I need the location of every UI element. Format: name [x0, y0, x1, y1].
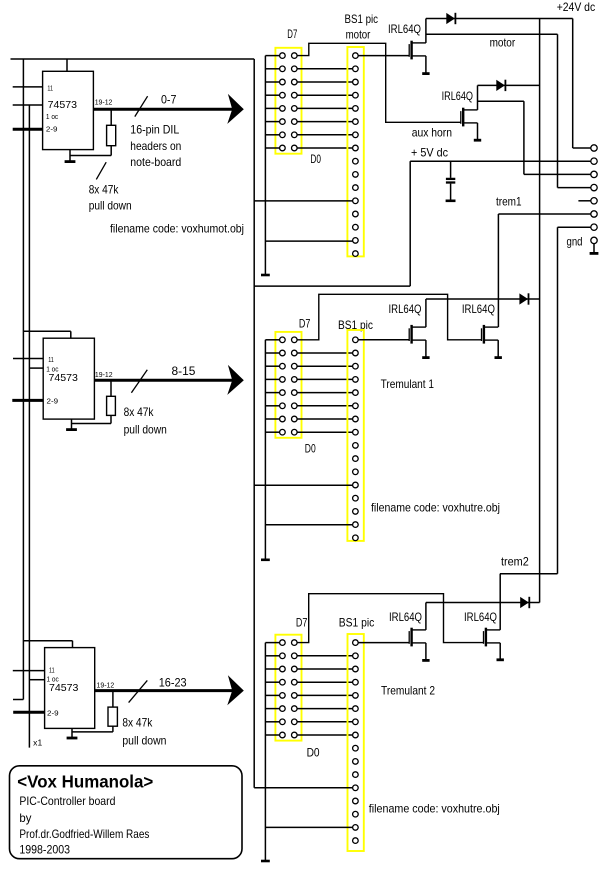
wire +5V rail to terminal: [410, 160, 591, 162]
svg-text:PIC-Controller board: PIC-Controller board: [19, 794, 115, 808]
wire U3 top pin drop: [72, 641, 74, 648]
svg-text:19-12: 19-12: [95, 372, 113, 379]
wire +5V across to bus: [254, 285, 410, 287]
resistor R1 8x47k: [107, 125, 116, 145]
wire bus (latch supply) vertical: [22, 59, 24, 700]
bus terminator bar: [261, 274, 270, 277]
svg-text:<Vox Humanola>: <Vox Humanola>: [17, 772, 153, 792]
wire U1 pin 1 oc: [13, 104, 43, 106]
svg-text:IRL64Q: IRL64Q: [464, 610, 497, 624]
svg-text:D7: D7: [299, 316, 311, 330]
wire terminal 4 stub: [558, 187, 591, 189]
wire R2 to ground: [72, 423, 112, 425]
bus-width slash on 0-7: [135, 96, 148, 116]
wire R3 to ground: [72, 731, 113, 733]
BS1 section-3 pin circles: [353, 640, 359, 844]
wire BS1 pin1 to Q3 gate: [358, 339, 409, 341]
svg-text:filename code: voxhutre.obj: filename code: voxhutre.obj: [371, 500, 500, 514]
svg-text:pull down: pull down: [122, 733, 166, 747]
bus terminator bar: [261, 860, 270, 863]
svg-text:note-board: note-board: [130, 155, 181, 169]
wire bus (latch oc) vertical: [28, 105, 30, 748]
wire bus to U3 top pin: [23, 640, 72, 642]
transistor Q1 (IRL64Q): [409, 41, 426, 60]
wire motor output: [426, 33, 558, 35]
svg-text:+24V dc: +24V dc: [557, 0, 596, 14]
wire R1 bottom lead: [110, 146, 112, 156]
wire trem1 output to terminal 6: [498, 213, 590, 215]
terminal aux horn: [591, 171, 597, 177]
wire U3 output bus 16-23 (thick): [95, 689, 238, 692]
wire BS1 pin1 to Q1 gate: [358, 55, 409, 57]
J3 header pin circles: [280, 640, 298, 738]
wire gnd bus to BS1 pin15 (section 2): [265, 524, 352, 526]
svg-text:8x 47k: 8x 47k: [124, 405, 155, 419]
svg-text:pull down: pull down: [124, 422, 167, 436]
wire +5V bus to BS1 pin12 (section 3): [254, 787, 352, 789]
wire U2 pin 11: [13, 358, 43, 360]
ground below U3: [67, 728, 78, 738]
svg-text:8-15: 8-15: [172, 364, 196, 378]
ground below U1: [65, 150, 76, 162]
wire aux horn output: [478, 100, 524, 102]
svg-text:motor: motor: [346, 27, 371, 41]
svg-text:11: 11: [48, 357, 54, 364]
wire R1 to ground: [70, 155, 111, 157]
svg-text:16-pin DIL: 16-pin DIL: [130, 123, 179, 137]
resistor R2 8x47k: [107, 396, 116, 415]
latch U1 74573: [43, 71, 94, 149]
wire +24V vertical bus: [539, 19, 541, 603]
terminal +24V: [591, 145, 597, 151]
svg-text:+ 5V dc: + 5V dc: [411, 146, 448, 160]
svg-text:74573: 74573: [49, 682, 79, 694]
ground at Q4 source: [495, 340, 502, 358]
svg-text:8x 47k: 8x 47k: [89, 182, 120, 196]
svg-text:1998-2003: 1998-2003: [19, 843, 70, 857]
svg-text:D0: D0: [310, 152, 321, 166]
connector BS1 body (yellow): [347, 47, 363, 256]
svg-text:2-9: 2-9: [46, 126, 58, 133]
pointer slash to R1: [96, 162, 106, 179]
wire D7 signal over-route to Q4 gate: [297, 294, 481, 340]
terminal trem1: [591, 198, 597, 204]
transistor Q6 (IRL64Q): [484, 628, 501, 647]
wire +24V flyback rail (motor): [426, 18, 573, 20]
terminal motor: [591, 184, 597, 190]
wire R2 bottom lead: [110, 415, 112, 423]
svg-text:2-9: 2-9: [47, 711, 59, 718]
wires J1 left pins to bus: [265, 56, 279, 148]
wire U1 top pin: [66, 59, 68, 71]
latch U2 74573: [43, 338, 94, 419]
connector BS1 body section 3 (yellow): [348, 634, 364, 851]
svg-text:1 oc: 1 oc: [46, 114, 59, 121]
terminal trem2 out: [591, 224, 597, 230]
ground at Q6 source: [497, 643, 504, 660]
wire +5V bus to BS1 pin12: [254, 200, 352, 202]
wire +5V bus to BS1 pin12 (section 2): [254, 484, 352, 486]
wire Q5 flyback to +24V bus: [426, 602, 540, 604]
header J3 connector body (yellow): [275, 635, 301, 741]
svg-text:IRL64Q: IRL64Q: [389, 302, 422, 316]
arrowhead of bus 16-23: [227, 675, 244, 705]
svg-text:D0: D0: [307, 745, 320, 759]
wire R3 bottom lead: [112, 726, 114, 732]
wire terminal 3 stub: [524, 173, 591, 175]
svg-text:IRL64Q: IRL64Q: [442, 89, 473, 103]
ground below U2: [66, 419, 77, 430]
wire J3 left-column bus: [264, 643, 266, 860]
bus-width slash on 16-23: [129, 680, 148, 702]
header J2 connector body (yellow): [275, 332, 301, 438]
svg-text:trem1: trem1: [496, 195, 522, 209]
svg-text:2-9: 2-9: [47, 398, 59, 405]
svg-text:IRL64Q: IRL64Q: [388, 22, 421, 36]
wire U2 pin 1 oc from bus: [29, 367, 43, 369]
wire +5V down: [409, 161, 411, 286]
svg-text:pull down: pull down: [89, 199, 132, 213]
latch U3 74573: [45, 648, 95, 729]
wire bus to U2 top pin: [23, 330, 70, 332]
diode D2 (aux horn flyback): [496, 80, 505, 91]
svg-text:D7: D7: [296, 615, 308, 629]
svg-text:19-12: 19-12: [95, 100, 113, 107]
wire Q6 drain up to trem2: [499, 574, 501, 630]
diode D4 (trem2 flyback): [520, 597, 529, 608]
wires J3 left pins to bus: [265, 643, 279, 735]
svg-text:11: 11: [49, 667, 55, 674]
svg-text:Prof.dr.Godfried-Willem Raes: Prof.dr.Godfried-Willem Raes: [19, 827, 149, 841]
svg-text:motor: motor: [490, 36, 516, 50]
wire aux horn down to terminal 3: [523, 101, 525, 174]
wire U1 pin 11: [13, 86, 43, 88]
BS1 section-2 pin circles: [353, 337, 359, 541]
ground symbol at gnd terminal: [590, 244, 599, 254]
wire bus (+5V to BS1 pin12) vertical: [253, 59, 255, 788]
wire Q2 drain up: [477, 85, 479, 110]
transistor Q3 (IRL64Q): [409, 325, 426, 344]
J2 header pin circles: [280, 337, 298, 435]
svg-text:filename code: voxhutre.obj: filename code: voxhutre.obj: [369, 801, 500, 815]
ground at Q3 source: [422, 340, 429, 358]
svg-text:x1: x1: [33, 739, 43, 748]
wire U2 top pin drop: [70, 331, 72, 338]
wire Q3 flyback to +24V bus: [426, 298, 540, 300]
wire U3 pin 1 oc from bus: [29, 679, 44, 681]
wire terminal 1 stub: [573, 147, 591, 149]
wire J2 left-column bus: [264, 340, 266, 559]
svg-text:74573: 74573: [48, 99, 78, 111]
svg-text:11: 11: [47, 85, 53, 92]
svg-text:IRL64Q: IRL64Q: [389, 610, 422, 624]
svg-text:gnd: gnd: [567, 235, 583, 249]
wire J1 left-column bus: [264, 56, 266, 275]
wire U1 bus pins 2-9 (thick): [13, 128, 43, 131]
svg-text:8x 47k: 8x 47k: [122, 716, 153, 730]
wires J2 right pins to BS1: [297, 353, 353, 432]
wire D7 signal over-route to Q2 gate: [297, 43, 461, 122]
svg-text:Tremulant 2: Tremulant 2: [381, 684, 435, 698]
title box: [10, 766, 243, 859]
wire terminal 5 stub (trem1): [578, 200, 590, 202]
wire Q2 flyback to +24V bus: [478, 84, 540, 86]
transistor Q4 (IRL64Q): [482, 325, 499, 344]
wire Q5 drain up: [425, 603, 427, 630]
wire gnd bus to BS1 pin15: [265, 240, 352, 242]
ground at Q5 source: [422, 643, 429, 661]
svg-text:0-7: 0-7: [161, 93, 177, 107]
svg-text:BS1 pic: BS1 pic: [345, 12, 379, 26]
wire trem2 vertical: [557, 227, 559, 574]
svg-text:by: by: [19, 811, 31, 825]
diode D3 (trem1 flyback): [519, 293, 528, 304]
wire trem1 down to Q4 drain: [497, 214, 499, 327]
svg-text:D0: D0: [305, 441, 316, 455]
svg-text:Tremulant 1: Tremulant 1: [381, 377, 435, 391]
connector BS1 body section 2 (yellow): [347, 330, 363, 541]
wires J3 right pins to BS1: [297, 656, 353, 735]
wire stub at bottom of bus: [13, 699, 23, 701]
wire U2 output bus 8-15 (thick): [94, 379, 238, 382]
wires J2 left pins to bus: [265, 340, 279, 432]
arrowhead of bus 8-15: [227, 365, 244, 395]
svg-text:19-12: 19-12: [97, 682, 115, 689]
wire D7 signal over-route to Q6 gate: [297, 594, 483, 643]
wire trem2 step: [500, 573, 558, 575]
wires J1 right pins to BS1 (D6..D0): [297, 69, 353, 148]
wire U1 output bus 0-7 (thick): [93, 108, 238, 111]
svg-text:headers on: headers on: [130, 139, 181, 153]
BS1 pin circles: [353, 53, 359, 257]
ground at Q2 source: [474, 123, 481, 140]
wire BS1 pin1 to Q5 gate: [358, 642, 409, 644]
wire R1 top lead: [110, 110, 112, 125]
transistor Q5 (IRL64Q): [409, 628, 426, 647]
terminal gnd: [591, 237, 597, 243]
wire motor down to terminal 4: [557, 34, 559, 187]
bus-width slash on 8-15: [131, 370, 147, 393]
terminal +5V: [591, 158, 597, 164]
ground below C1: [446, 200, 456, 203]
wire R3 top lead: [112, 692, 114, 707]
wire U2 bus pins 2-9 (thick): [12, 399, 43, 402]
wire Q1 drain up to flyback rail: [425, 19, 427, 43]
arrowhead of bus 0-7: [227, 94, 244, 124]
wire R2 top lead: [110, 382, 112, 397]
ground at Q1 source: [422, 56, 429, 74]
capacitor C1 (decoupling): [446, 161, 455, 199]
svg-text:filename code: voxhumot.obj: filename code: voxhumot.obj: [110, 222, 244, 236]
header J1 connector body (yellow): [275, 48, 301, 154]
J1 header pin circles: [280, 53, 298, 151]
wire +24V to terminal 1: [572, 19, 574, 149]
svg-text:74573: 74573: [49, 372, 79, 384]
svg-text:aux horn: aux horn: [412, 125, 452, 139]
svg-text:D7: D7: [287, 27, 297, 41]
wire U3 bus pins 2-9 (thick): [13, 711, 44, 714]
svg-text:16-23: 16-23: [159, 675, 187, 689]
svg-text:IRL64Q: IRL64Q: [462, 302, 495, 316]
wire +5V top rail to latches: [11, 58, 255, 60]
wire trem2 output to terminal 7: [558, 226, 591, 228]
svg-text:trem2: trem2: [501, 554, 529, 568]
transistor Q2 (IRL64Q): [461, 108, 478, 127]
svg-text:BS1 pic: BS1 pic: [339, 615, 375, 629]
resistor R3 8x47k: [108, 707, 117, 726]
bus terminator bar: [261, 558, 270, 561]
terminal trem1 out: [591, 211, 597, 217]
diode D1 (motor flyback): [446, 13, 455, 24]
wire gnd bus to BS1 pin15 (section 3): [265, 826, 352, 828]
wire Q3 drain up: [425, 299, 427, 327]
wire U3 pin 11: [13, 670, 45, 672]
